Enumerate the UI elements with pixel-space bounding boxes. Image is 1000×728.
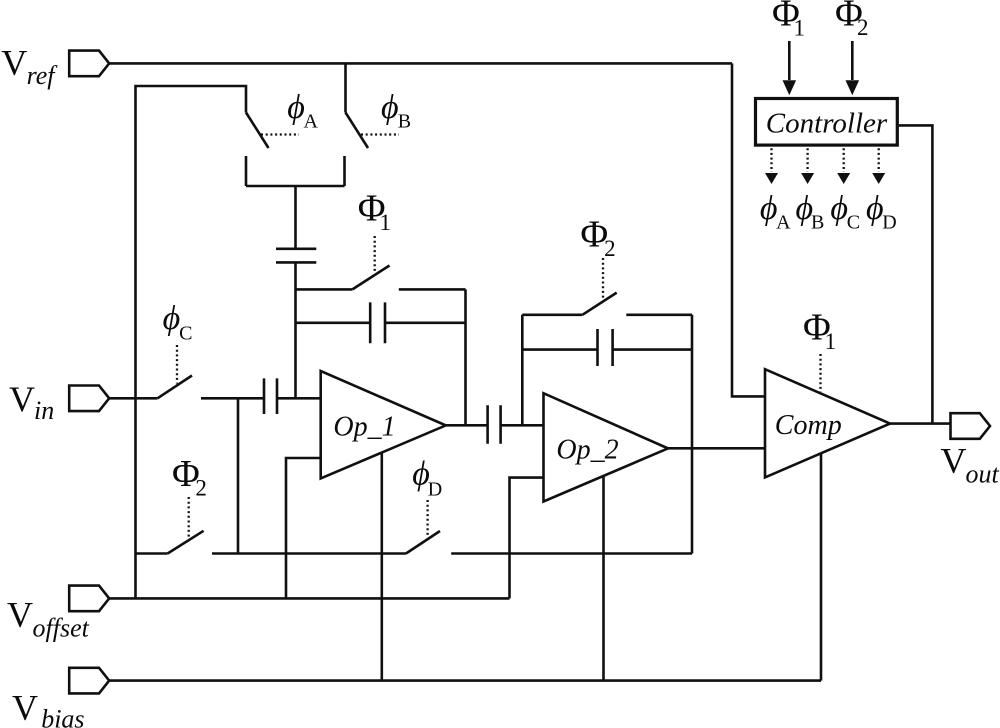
wire Vin to switch phiC (109, 397, 157, 400)
wire Op1 bias vertical (380, 453, 383, 680)
wire Op2 lower input stub to Voffset rail (510, 478, 544, 599)
arrow Phi1 into controller (788, 41, 791, 80)
wire junction drop to bottom switch line (237, 398, 240, 553)
wire Op1 feedback right vertical (464, 289, 467, 425)
capacitor Op2 feedback (598, 329, 613, 366)
switch Phi1 feedback blade (352, 266, 389, 290)
svg-text:V: V (1, 43, 27, 83)
terminal Vref (69, 51, 109, 77)
svg-text:ϕ: ϕ (163, 300, 181, 337)
arrow dotted phiA out of controller (770, 148, 772, 172)
svg-text:ϕ: ϕ (287, 89, 305, 126)
capacitor Op1 feedback (370, 302, 385, 343)
svg-text:ϕ: ϕ (866, 190, 884, 227)
svg-text:2: 2 (195, 475, 207, 500)
svg-text:1: 1 (380, 210, 392, 235)
switch Phi1 feedback dotted control line (374, 236, 376, 271)
wire Op1 lower input stub to Voffset rail (286, 458, 321, 598)
wire bottom switch line segments (136, 552, 693, 555)
wire drop to phiB switch (344, 63, 347, 112)
svg-text:ϕ: ϕ (830, 190, 848, 227)
svg-text:V: V (12, 688, 38, 728)
svg-text:Comp: Comp (775, 410, 842, 441)
wire Op2 feedback switch branch (522, 313, 692, 316)
wire Op2 bias vertical (602, 476, 605, 680)
svg-text:1: 1 (825, 329, 837, 354)
svg-text:ϕ: ϕ (381, 89, 399, 126)
wire Op1 output to interstage capacitor (446, 424, 488, 427)
svg-text:C: C (179, 323, 192, 345)
wire Comp bias vertical (820, 453, 823, 681)
switch Comp Phi1 dotted control line (819, 354, 821, 392)
wire Voffset rail (109, 597, 509, 600)
controller box (756, 99, 898, 146)
comparator Comp (765, 369, 890, 477)
terminal Vbias (69, 668, 109, 694)
terminal Voffset (69, 586, 109, 612)
switch phiC blade (158, 376, 193, 399)
svg-text:D: D (882, 212, 896, 234)
svg-text:2: 2 (604, 236, 616, 261)
svg-text:Op_1: Op_1 (333, 412, 395, 443)
svg-text:Op_2: Op_2 (556, 434, 618, 465)
wire Vbias rail (109, 679, 821, 682)
wire Vref right drop to Comp upper input (732, 63, 765, 396)
wire Op1 feedback capacitor branch (296, 321, 466, 324)
wire Op2 output to Comp (668, 447, 765, 450)
svg-text:offset: offset (33, 614, 90, 643)
svg-text:C: C (847, 212, 860, 234)
switch phiC dotted control line (176, 345, 178, 384)
terminal Vout (951, 413, 991, 439)
svg-text:V: V (7, 595, 33, 635)
svg-text:D: D (428, 479, 442, 501)
wire summing node vertical below capacitor (294, 262, 297, 398)
arrow Phi2 into controller (851, 41, 854, 80)
svg-text:B: B (398, 110, 411, 132)
arrow dotted phiC out of controller (843, 148, 845, 172)
svg-text:ref: ref (27, 61, 59, 90)
terminal Vin (69, 386, 109, 412)
capacitor series (horizontal plates) (276, 249, 316, 263)
capacitor Op1 input (264, 378, 277, 414)
svg-text:V: V (9, 379, 35, 419)
switch Phi2 bottom dotted control line (188, 497, 190, 539)
svg-text:2: 2 (857, 15, 869, 40)
switch Phi2 feedback dotted control line (602, 258, 604, 298)
wire Vref left branch and left rail (136, 86, 247, 598)
svg-text:1: 1 (794, 15, 806, 40)
svg-text:V: V (941, 441, 967, 481)
wire phiC to input capacitor (201, 397, 264, 400)
svg-text:B: B (811, 212, 824, 234)
op-amp Op_1 (321, 371, 446, 478)
wire Op2 feedback left vertical (521, 315, 524, 426)
switch phiA blade (246, 113, 269, 149)
svg-text:ϕ: ϕ (760, 190, 778, 227)
wire Comp output (890, 422, 951, 425)
arrow dotted phiD out of controller (878, 148, 880, 172)
svg-text:A: A (776, 212, 791, 234)
switch phiD blade (406, 531, 440, 554)
wire interstage capacitor to Op2 (501, 424, 544, 427)
switch phiA dotted control line (261, 133, 299, 135)
switch Phi2 feedback blade (582, 293, 616, 315)
wire Vref main horizontal (109, 62, 732, 65)
wire Op1 feedback switch branch (296, 288, 466, 291)
switch phiB dotted control line (361, 133, 399, 135)
wire Op2 feedback capacitor branch (522, 348, 692, 351)
wire bracket joining phiA/phiB outputs with center tap (246, 156, 345, 248)
switch phiB blade (346, 113, 369, 149)
wire input capacitor to Op1 (277, 397, 321, 400)
switch Phi2 bottom blade (168, 531, 204, 554)
arrow dotted phiB out of controller (806, 148, 808, 172)
svg-text:in: in (34, 396, 54, 425)
capacitor interstage (488, 405, 501, 443)
wire Controller output feedback to Comp output node (899, 125, 933, 423)
svg-text:A: A (304, 110, 319, 132)
svg-text:bias: bias (41, 705, 84, 728)
wire Op2 feedback right vertical (691, 315, 694, 554)
svg-text:out: out (966, 460, 1000, 489)
op-amp Op_2 (544, 393, 669, 501)
switch phiD dotted control line (426, 500, 428, 536)
svg-text:Controller: Controller (766, 107, 888, 139)
